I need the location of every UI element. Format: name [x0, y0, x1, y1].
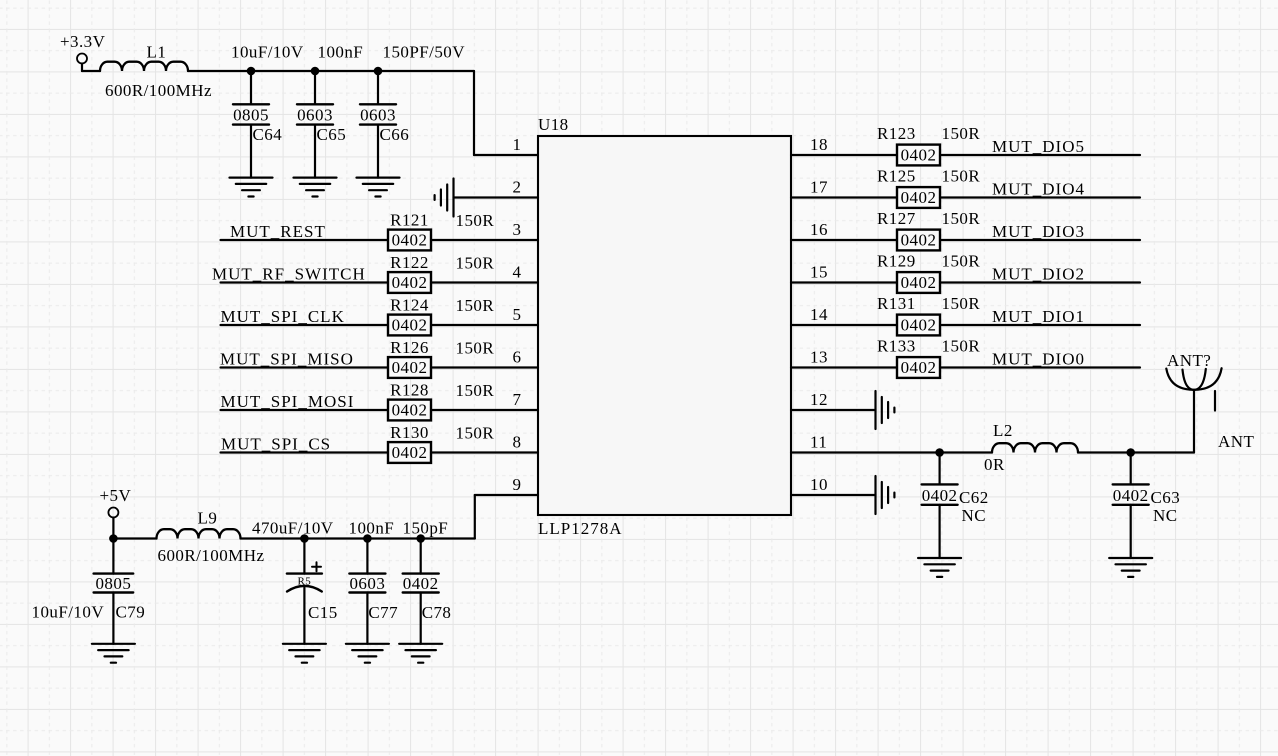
capacitor C15 (polarized) [287, 539, 322, 644]
junction node C63 [1126, 448, 1135, 457]
svg-text:0603: 0603 [360, 105, 396, 124]
wire [940, 239, 1140, 241]
resistor R124 [388, 315, 431, 336]
svg-text:0402: 0402 [901, 146, 937, 165]
svg-text:1: 1 [513, 135, 522, 154]
svg-text:LLP1278A: LLP1278A [538, 519, 623, 538]
svg-text:R125: R125 [877, 167, 916, 186]
wire [431, 281, 538, 283]
svg-text:MUT_SPI_CS: MUT_SPI_CS [221, 435, 331, 454]
ground [92, 644, 135, 663]
wire [791, 324, 897, 326]
svg-text:10uF/10V: 10uF/10V [231, 43, 304, 62]
svg-text:0402: 0402 [901, 316, 937, 335]
wire [431, 451, 538, 453]
svg-text:R122: R122 [390, 253, 429, 272]
ground [230, 178, 273, 197]
wire [221, 281, 389, 283]
svg-text:MUT_DIO4: MUT_DIO4 [992, 180, 1085, 199]
svg-text:150pF: 150pF [403, 519, 449, 538]
wire [791, 154, 897, 156]
ground [346, 644, 389, 663]
svg-text:C78: C78 [422, 603, 452, 622]
resistor R122 [388, 272, 431, 293]
svg-text:NC: NC [962, 506, 987, 525]
svg-text:C62: C62 [959, 488, 989, 507]
svg-text:150R: 150R [942, 337, 981, 356]
svg-text:ANT: ANT [1218, 432, 1254, 451]
svg-text:7: 7 [513, 390, 522, 409]
ground [435, 179, 454, 217]
svg-text:C63: C63 [1151, 488, 1181, 507]
capacitor C79 [94, 539, 134, 644]
inductor L1 [100, 62, 188, 71]
svg-text:NC: NC [1153, 506, 1178, 525]
capacitor C78 [403, 539, 439, 644]
svg-text:+3.3V: +3.3V [60, 32, 106, 51]
ground [918, 558, 961, 577]
ground [357, 178, 400, 197]
svg-text:R133: R133 [877, 337, 916, 356]
capacitor C66 [360, 71, 396, 178]
IC U18 LLP1278A [538, 136, 791, 515]
svg-text:L1: L1 [147, 43, 167, 62]
antenna ANT? [1166, 368, 1221, 410]
wire [431, 366, 538, 368]
svg-text:0603: 0603 [349, 574, 385, 593]
capacitor C65 [297, 71, 333, 178]
svg-text:R127: R127 [877, 209, 916, 228]
svg-text:0402: 0402 [1113, 486, 1149, 505]
junction node C15 [300, 534, 309, 543]
resistor R123 [897, 145, 940, 166]
ground [876, 476, 895, 514]
capacitor C62 (NC) [922, 453, 958, 559]
wire [791, 409, 876, 411]
svg-text:0402: 0402 [901, 188, 937, 207]
svg-text:0402: 0402 [392, 231, 428, 250]
junction node C62 [935, 448, 944, 457]
svg-text:C66: C66 [380, 125, 410, 144]
svg-text:R129: R129 [877, 252, 916, 271]
wire pin 11 to antenna [791, 390, 1194, 453]
svg-text:MUT_SPI_CLK: MUT_SPI_CLK [221, 307, 345, 326]
resistor R125 [897, 187, 940, 208]
svg-text:150R: 150R [942, 294, 981, 313]
svg-text:0402: 0402 [392, 316, 428, 335]
svg-text:0603: 0603 [297, 105, 333, 124]
svg-text:MUT_DIO1: MUT_DIO1 [992, 307, 1085, 326]
power terminal +3.3V [60, 32, 106, 64]
resistor R130 [388, 442, 431, 463]
wire [82, 64, 100, 72]
wire [940, 154, 1140, 156]
svg-text:6: 6 [513, 348, 522, 367]
junction node C79 [109, 534, 118, 543]
wire [431, 239, 538, 241]
svg-text:0805: 0805 [95, 574, 131, 593]
svg-text:R130: R130 [390, 423, 429, 442]
svg-text:U18: U18 [538, 115, 569, 134]
wire [112, 518, 114, 539]
svg-text:0402: 0402 [392, 273, 428, 292]
svg-text:R124: R124 [390, 296, 429, 315]
wire [791, 494, 876, 496]
svg-text:R126: R126 [390, 338, 429, 357]
junction node C77 [363, 534, 372, 543]
svg-text:3: 3 [513, 220, 522, 239]
svg-text:12: 12 [810, 390, 828, 409]
wire [221, 324, 389, 326]
wire [791, 366, 897, 368]
svg-text:C77: C77 [368, 603, 398, 622]
resistor R127 [897, 230, 940, 251]
resistor R126 [388, 357, 431, 378]
svg-text:0402: 0402 [901, 358, 937, 377]
ground [294, 178, 337, 197]
svg-text:C65: C65 [317, 125, 347, 144]
capacitor C64 [233, 71, 269, 178]
wire [940, 281, 1140, 283]
wire [431, 324, 538, 326]
svg-text:150R: 150R [456, 296, 495, 315]
svg-text:150R: 150R [456, 381, 495, 400]
wire [221, 409, 389, 411]
svg-text:R128: R128 [390, 381, 429, 400]
svg-text:C79: C79 [116, 603, 146, 622]
wire [940, 366, 1140, 368]
svg-text:0402: 0402 [392, 401, 428, 420]
svg-text:150R: 150R [942, 209, 981, 228]
svg-text:R5: R5 [298, 576, 312, 588]
svg-text:150R: 150R [942, 167, 981, 186]
junction node C65 top [311, 67, 320, 76]
wire [454, 196, 539, 198]
wire [791, 281, 897, 283]
wire [188, 71, 538, 155]
capacitor C63 (NC) [1113, 453, 1149, 559]
wire [221, 239, 389, 241]
svg-text:R121: R121 [390, 211, 429, 230]
svg-text:0402: 0402 [392, 443, 428, 462]
svg-text:MUT_DIO5: MUT_DIO5 [992, 137, 1085, 156]
ground [399, 644, 442, 663]
svg-text:C64: C64 [253, 125, 283, 144]
svg-text:MUT_SPI_MISO: MUT_SPI_MISO [220, 350, 354, 369]
svg-text:5: 5 [513, 305, 522, 324]
wire [431, 409, 538, 411]
wire [221, 366, 389, 368]
svg-text:R131: R131 [877, 294, 916, 313]
svg-text:0402: 0402 [901, 273, 937, 292]
svg-text:MUT_SPI_MOSI: MUT_SPI_MOSI [221, 392, 355, 411]
power terminal +5V [100, 486, 132, 518]
svg-text:0805: 0805 [233, 105, 269, 124]
capacitor C77 [349, 539, 385, 644]
svg-text:14: 14 [810, 305, 828, 324]
svg-text:L2: L2 [993, 421, 1013, 440]
svg-text:ANT?: ANT? [1167, 351, 1211, 370]
svg-text:0402: 0402 [922, 486, 958, 505]
svg-text:0402: 0402 [392, 358, 428, 377]
svg-text:C15: C15 [308, 603, 338, 622]
svg-text:150R: 150R [942, 252, 981, 271]
svg-text:L9: L9 [198, 509, 218, 528]
svg-text:11: 11 [810, 433, 827, 452]
svg-text:150PF/50V: 150PF/50V [383, 43, 466, 62]
svg-text:18: 18 [810, 135, 828, 154]
svg-text:470uF/10V: 470uF/10V [252, 519, 334, 538]
ground [876, 391, 895, 429]
junction node C66 top [374, 67, 383, 76]
junction node C64 top [247, 67, 256, 76]
svg-text:100nF: 100nF [349, 519, 395, 538]
svg-text:8: 8 [513, 433, 522, 452]
svg-text:150R: 150R [456, 339, 495, 358]
svg-text:10uF/10V: 10uF/10V [32, 603, 105, 622]
svg-text:MUT_DIO3: MUT_DIO3 [992, 222, 1085, 241]
wire [791, 196, 897, 198]
svg-text:17: 17 [810, 178, 828, 197]
resistor R129 [897, 272, 940, 293]
svg-text:MUT_RF_SWITCH: MUT_RF_SWITCH [212, 265, 366, 284]
resistor R128 [388, 400, 431, 421]
svg-text:150R: 150R [456, 211, 495, 230]
svg-text:100nF: 100nF [318, 43, 364, 62]
svg-text:2: 2 [513, 178, 522, 197]
svg-text:10: 10 [810, 475, 828, 494]
wire [791, 239, 897, 241]
wire bottom rail [113, 495, 538, 539]
resistor R131 [897, 315, 940, 336]
svg-text:16: 16 [810, 220, 828, 239]
svg-text:600R/100MHz: 600R/100MHz [158, 546, 265, 565]
svg-text:0402: 0402 [403, 574, 439, 593]
resistor R133 [897, 357, 940, 378]
svg-text:15: 15 [810, 263, 828, 282]
svg-text:MUT_DIO0: MUT_DIO0 [992, 350, 1085, 369]
junction node C78 [416, 534, 425, 543]
resistor R121 [388, 230, 431, 251]
svg-text:150R: 150R [942, 124, 981, 143]
wire [940, 324, 1140, 326]
svg-text:600R/100MHz: 600R/100MHz [105, 81, 212, 100]
svg-text:150R: 150R [456, 254, 495, 273]
svg-text:MUT_REST: MUT_REST [230, 222, 326, 241]
svg-text:150R: 150R [456, 424, 495, 443]
inductor L9 [157, 529, 241, 538]
svg-text:4: 4 [513, 263, 522, 282]
svg-text:0402: 0402 [901, 231, 937, 250]
ground [283, 644, 326, 663]
svg-text:R123: R123 [877, 124, 916, 143]
svg-text:0R: 0R [984, 455, 1005, 474]
svg-text:13: 13 [810, 348, 828, 367]
svg-text:MUT_DIO2: MUT_DIO2 [992, 265, 1085, 284]
wire [221, 451, 389, 453]
ground [1109, 558, 1152, 577]
inductor L2 [992, 443, 1078, 452]
wire [940, 196, 1140, 198]
svg-text:9: 9 [513, 475, 522, 494]
svg-text:+5V: +5V [100, 486, 132, 505]
